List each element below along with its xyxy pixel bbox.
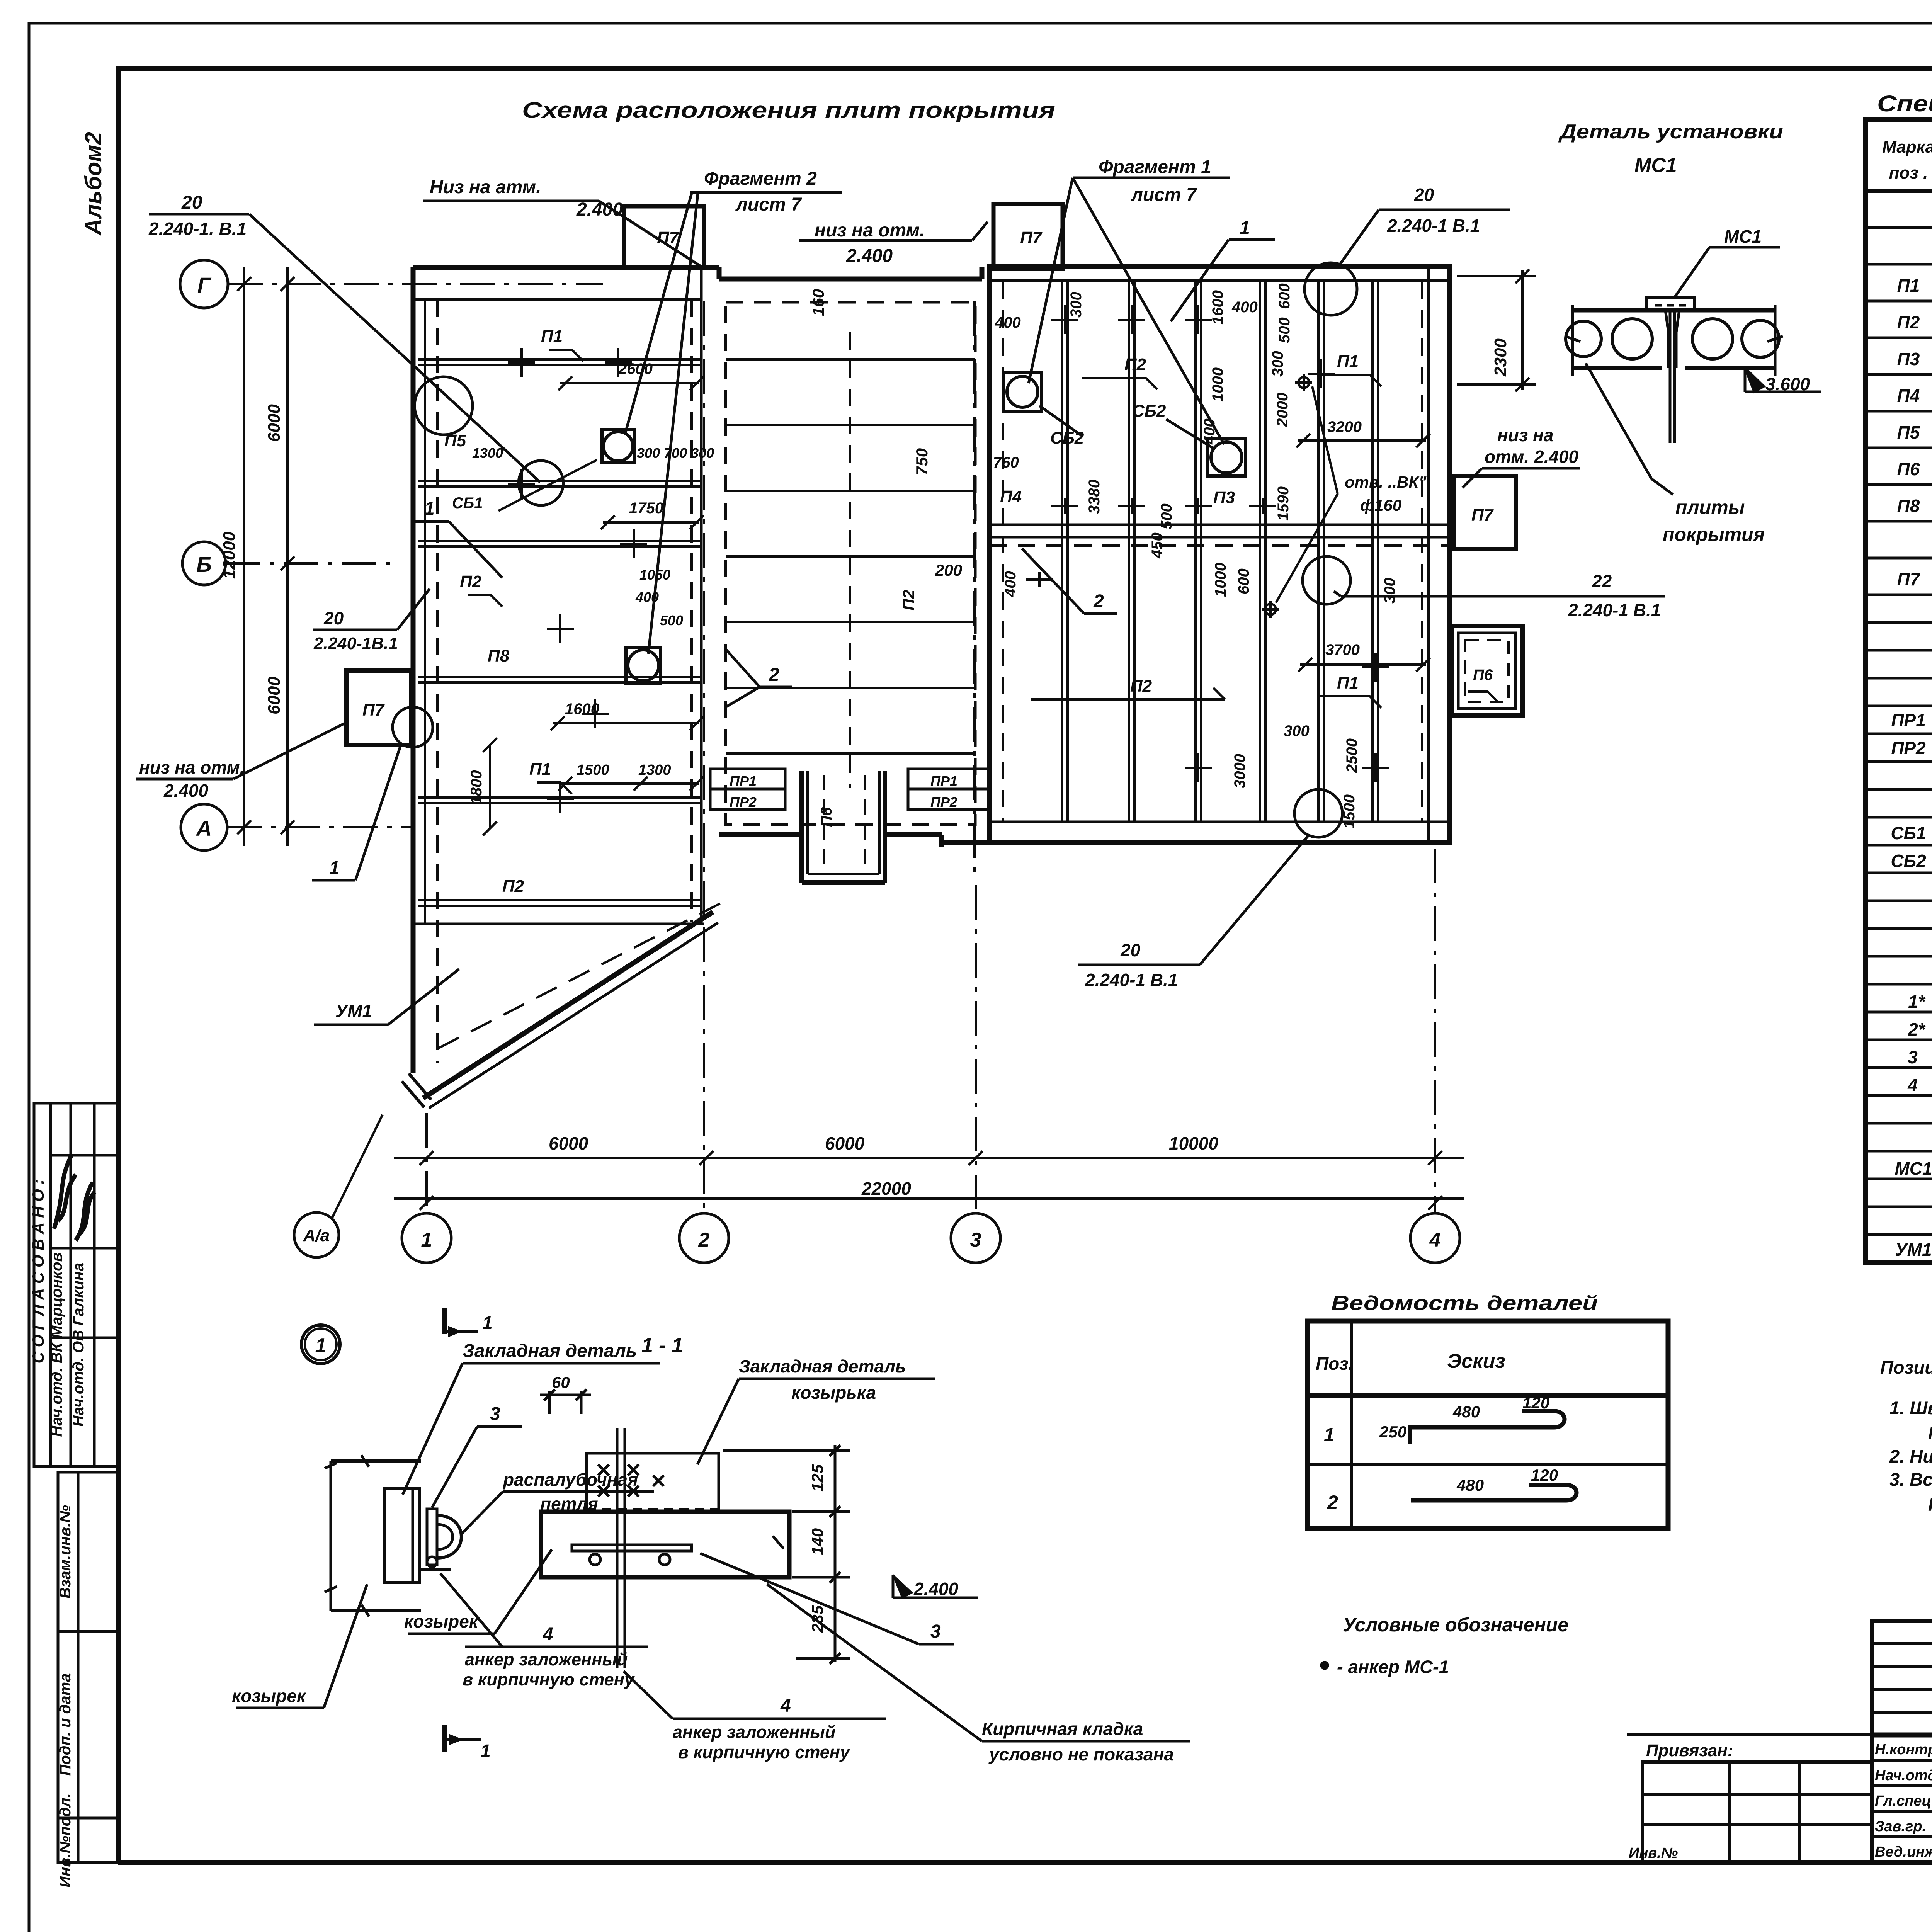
left block plate joints: [418, 359, 701, 906]
svg-text:Условные обозначение: Условные обозначение: [1343, 1614, 1568, 1636]
svg-text:П6: П6: [1897, 459, 1920, 479]
hollow cores: [1566, 321, 1601, 357]
top П7 canopy box: [624, 206, 704, 267]
svg-text:22000: 22000: [861, 1179, 911, 1199]
node circle 1: [301, 1325, 340, 1364]
svg-text:1600: 1600: [1209, 290, 1226, 325]
svg-text:1800: 1800: [468, 770, 485, 805]
axis 2 3 inside plan: [704, 301, 975, 923]
svg-text:1: 1: [315, 1335, 327, 1357]
axis circle А: [181, 804, 413, 850]
svg-text:3: 3: [970, 1229, 981, 1251]
svg-text:300: 300: [1269, 351, 1286, 377]
svg-text:П1: П1: [1897, 276, 1920, 296]
lintel boxes ПР1 ПР2 right: [908, 769, 989, 810]
svg-text:плиты: плиты: [1675, 497, 1745, 518]
УМ1 label: [314, 969, 459, 1025]
wall edge: [330, 1461, 332, 1611]
svg-text:Инв.№: Инв.№: [1629, 1845, 1678, 1861]
svg-text:Эскиз: Эскиз: [1447, 1350, 1505, 1372]
svg-text:3. Все сварные соединения: 3. Все сварные соединения выполнять элек…: [1889, 1469, 1932, 1490]
svg-text:П2: П2: [1124, 355, 1146, 374]
svg-text:МС1: МС1: [1634, 154, 1677, 177]
svg-text:П4: П4: [1897, 386, 1920, 406]
anchor bar in slab: [572, 1545, 692, 1551]
dim 2300 right: [1457, 269, 1536, 391]
СБ1 glass 2: [626, 648, 660, 683]
left wall inner dashed: [424, 299, 426, 923]
СБ2 glass right: [1208, 439, 1245, 476]
section mark top: [442, 1308, 447, 1334]
svg-text:покрытия: покрытия: [1663, 524, 1765, 545]
СБ2 glass left: [1004, 372, 1041, 412]
svg-text:1300: 1300: [638, 762, 671, 778]
slabs top line: [1573, 308, 1775, 313]
svg-text:Фрагмент 1: Фрагмент 1: [1099, 157, 1211, 177]
svg-text:6000: 6000: [265, 404, 284, 442]
svg-text:1300: 1300: [472, 445, 503, 461]
right block outline: [942, 267, 1449, 843]
svg-text:1: 1: [482, 1313, 493, 1333]
level 2.400: [893, 1575, 912, 1598]
svg-text:2000: 2000: [1274, 393, 1291, 427]
svg-text:Низ на атм.: Низ на атм.: [430, 177, 541, 197]
svg-text:ПР1: ПР1: [930, 773, 957, 789]
svg-text:1: 1: [421, 1229, 432, 1251]
slab top/bottom: [331, 1459, 421, 1463]
svg-text:П7: П7: [1020, 228, 1043, 247]
LEFT STAMP: [29, 1103, 118, 1888]
svg-text:2: 2: [698, 1229, 710, 1251]
svg-text:12000: 12000: [220, 531, 239, 579]
svg-text:1: 1: [1240, 218, 1250, 238]
left block bottom / monolith diagonal: [423, 912, 713, 1098]
svg-text:Закладная деталь: Закладная деталь: [463, 1341, 637, 1361]
pos 1 left mid: [415, 498, 502, 578]
svg-text:3: 3: [1908, 1047, 1918, 1067]
svg-text:ПР1: ПР1: [1891, 710, 1925, 730]
svg-text:4: 4: [780, 1696, 791, 1716]
svg-text:П3: П3: [1897, 349, 1920, 369]
svg-text:П2: П2: [1130, 677, 1152, 696]
TITLE BLOCK: [1872, 1621, 1932, 1862]
DETAIL NODE 1 (left bottom): [232, 1308, 660, 1762]
svg-text:400: 400: [1002, 571, 1019, 597]
svg-text:П1: П1: [529, 760, 551, 779]
svg-text:2.240-1 В.1: 2.240-1 В.1: [1387, 216, 1480, 236]
svg-text:П2: П2: [502, 877, 524, 896]
right block vertical joints: [1003, 281, 1422, 822]
svg-text:СБ1: СБ1: [452, 495, 483, 512]
svg-text:400: 400: [1231, 299, 1258, 316]
svg-text:СБ2: СБ2: [1891, 851, 1926, 871]
svg-text:Нач.отд.: Нач.отд.: [1875, 1767, 1932, 1784]
svg-text:2*: 2*: [1908, 1019, 1926, 1039]
svg-text:Кирпичная кладка: Кирпичная кладка: [982, 1719, 1143, 1739]
NOTES: [1880, 1357, 1932, 1515]
section mark bottom: [442, 1725, 447, 1752]
privyazan mini table: [1627, 1735, 1872, 1862]
svg-text:2. Низ плит на отм. 3.600: 2. Низ плит на отм. 3.600.: [1889, 1446, 1932, 1466]
approval box: [34, 1103, 118, 1466]
svg-text:Г: Г: [197, 273, 212, 297]
right dim chain: [834, 1445, 837, 1662]
svg-text:козырька: козырька: [791, 1383, 876, 1403]
svg-text:1. Швы между плитами задел: 1. Швы между плитами заделать цементным …: [1889, 1398, 1932, 1418]
svg-text:1 - 1: 1 - 1: [641, 1334, 683, 1357]
svg-text:СБ2: СБ2: [1050, 429, 1084, 447]
svg-text:П6: П6: [818, 807, 835, 827]
svg-text:2.240-1 В.1: 2.240-1 В.1: [1568, 600, 1661, 620]
svg-text:отв. ..ВК": отв. ..ВК": [1345, 473, 1427, 491]
svg-text:2.240-1 В.1: 2.240-1 В.1: [1085, 970, 1178, 990]
svg-text:ГОСТ 9466-75*.: ГОСТ 9466-75*.: [1928, 1494, 1932, 1515]
svg-text:20: 20: [1414, 185, 1434, 205]
svg-text:22: 22: [1592, 571, 1612, 591]
svg-text:Спецификация к схеме распол: Спецификация к схеме расположения плит п…: [1877, 91, 1932, 116]
svg-text:Фрагмент 2: Фрагмент 2: [704, 168, 817, 189]
fragment 1 callout: [1029, 157, 1230, 444]
right block labels: [1000, 352, 1359, 696]
svg-text:3000: 3000: [1231, 754, 1248, 788]
svg-text:4: 4: [1907, 1075, 1918, 1095]
joint V: [1665, 310, 1679, 368]
DETAIL SECTION 1-1: [404, 1334, 1190, 1764]
top wall left block: [413, 265, 719, 270]
middle block dashed outline: [726, 302, 975, 825]
svg-text:6000: 6000: [825, 1133, 865, 1153]
svg-text:ПР2: ПР2: [1891, 738, 1926, 758]
svg-text:козырек: козырек: [232, 1686, 307, 1706]
svg-text:750: 750: [913, 448, 931, 475]
svg-text:2.240-1. В.1: 2.240-1. В.1: [148, 219, 247, 239]
svg-text:1750: 1750: [629, 500, 663, 517]
slab leader: [1586, 363, 1651, 479]
svg-text:Взам.инв.№: Взам.инв.№: [57, 1505, 74, 1599]
svg-text:Нач.отд. ВК Марцонков: Нач.отд. ВК Марцонков: [48, 1252, 65, 1437]
VEDOMOST TABLE: [1308, 1292, 1668, 1529]
svg-text:3: 3: [930, 1621, 941, 1642]
svg-text:60: 60: [552, 1373, 570, 1391]
svg-text:Альбом2: Альбом2: [80, 132, 106, 236]
svg-text:А: А: [196, 816, 212, 840]
svg-text:УМ1: УМ1: [1895, 1240, 1932, 1260]
lintel boxes ПР1 ПР2 left: [710, 769, 785, 810]
MC1 DETAIL: [1341, 121, 1821, 620]
svg-text:300: 300: [1381, 578, 1398, 604]
svg-text:П2: П2: [460, 572, 482, 591]
20 2.240-1 В.1 bottom right callout: [1078, 835, 1309, 990]
svg-text:1: 1: [329, 858, 340, 878]
svg-text:3700: 3700: [1325, 641, 1360, 658]
svg-text:1*: 1*: [1908, 992, 1926, 1012]
plate marks right block: [1031, 375, 1381, 708]
svg-text:П8: П8: [1897, 496, 1920, 516]
svg-text:6000: 6000: [265, 677, 284, 714]
отв ВК label: [1276, 386, 1427, 603]
pos 1 bottom-left: [312, 744, 401, 880]
svg-text:2: 2: [1327, 1492, 1338, 1513]
svg-text:Нач.отд. ОВ Галкина: Нач.отд. ОВ Галкина: [70, 1263, 87, 1427]
svg-text:1: 1: [480, 1741, 491, 1762]
svg-text:Позиции 1,2- смотри ведомо: Позиции 1,2- смотри ведомость деталей: [1880, 1357, 1932, 1378]
svg-text:2: 2: [1093, 591, 1104, 612]
niz na otm left lower: [136, 722, 348, 801]
middle block joints: [726, 332, 975, 788]
svg-text:300: 300: [1068, 292, 1085, 318]
svg-text:ПР2: ПР2: [730, 794, 757, 810]
svg-text:1000: 1000: [1209, 367, 1226, 402]
anchor small plate: [427, 1509, 437, 1565]
kozyrek slab: [541, 1512, 789, 1577]
svg-text:200: 200: [935, 561, 962, 579]
svg-text:А/а: А/а: [303, 1226, 330, 1245]
svg-text:МС1: МС1: [1724, 226, 1762, 247]
anchor rod: [616, 1428, 619, 1668]
svg-text:поз .: поз .: [1889, 163, 1928, 182]
LEGEND: [1320, 1614, 1568, 1677]
svg-text:6000: 6000: [549, 1133, 588, 1153]
20 / 2.240-1В.1 left mid: [313, 589, 430, 653]
svg-text:2500: 2500: [1344, 738, 1361, 773]
svg-text:условно не показана: условно не показана: [988, 1744, 1174, 1764]
pos 1 top right: [1171, 218, 1275, 321]
right block middle band: [990, 525, 1449, 546]
left block dims: [452, 361, 714, 835]
svg-text:500: 500: [1158, 503, 1175, 529]
svg-text:Вед.инж.: Вед.инж.: [1875, 1844, 1932, 1860]
anchor plate: [1647, 297, 1695, 310]
niz na otm top-left: [423, 177, 701, 267]
svg-text:1500: 1500: [577, 762, 609, 778]
svg-text:П7: П7: [362, 701, 385, 719]
svg-text:1590: 1590: [1275, 486, 1292, 521]
svg-text:низ на отм.: низ на отм.: [139, 757, 245, 777]
niz na otm middle top: [799, 220, 988, 266]
svg-text:Б: Б: [196, 552, 212, 577]
svg-text:П1: П1: [1337, 673, 1359, 692]
svg-text:600: 600: [1235, 568, 1252, 594]
svg-text:Схема расположения плит пок: Схема расположения плит покрытия: [522, 98, 1055, 123]
svg-text:20: 20: [1120, 940, 1141, 960]
monolith dashed diagonal: [438, 903, 722, 1048]
svg-text:ф160: ф160: [1360, 496, 1401, 514]
svg-text:480: 480: [1456, 1476, 1484, 1494]
svg-text:М150 на всю высоту шва.: М150 на всю высоту шва.: [1928, 1423, 1932, 1443]
svg-text:250: 250: [1379, 1423, 1406, 1441]
svg-text:СБ2: СБ2: [1132, 401, 1166, 420]
svg-text:2300: 2300: [1491, 338, 1510, 377]
bottom axis stems: [427, 849, 1435, 1213]
svg-text:в кирпичную стену: в кирпичную стену: [678, 1742, 850, 1762]
20 / 2.240-1.8.1 top-left: [148, 192, 540, 482]
svg-text:20: 20: [181, 192, 202, 213]
22 2.240-1 В.1 leader from МС1 detail: [1334, 591, 1341, 596]
left vertical dimension lines: [220, 267, 294, 846]
bottom dimension line 1: [394, 1133, 1464, 1165]
svg-text:П6: П6: [1473, 667, 1493, 684]
fragment 2 callout: [625, 168, 842, 654]
building outline: left+middle blocks: [402, 204, 1063, 1107]
svg-text:120: 120: [1531, 1466, 1558, 1484]
svg-text:козырек: козырек: [404, 1611, 479, 1631]
pos 2 right mid: [1022, 549, 1117, 614]
svg-text:500: 500: [1276, 317, 1293, 343]
svg-text:2.240-1В.1: 2.240-1В.1: [313, 634, 398, 653]
left block right edge: [700, 267, 703, 924]
svg-text:П7: П7: [1471, 506, 1494, 525]
svg-text:П1: П1: [541, 327, 563, 346]
svg-text:20: 20: [323, 608, 344, 628]
svg-text:П2: П2: [1897, 312, 1920, 332]
SPEC TABLE HEADER TEXT: [1882, 138, 1932, 182]
svg-text:1000: 1000: [1212, 563, 1229, 597]
СБ1 glass 1: [602, 430, 635, 463]
node circles left: [415, 377, 473, 435]
svg-text:СБ1: СБ1: [1891, 823, 1926, 843]
pos 2 middle callout: [726, 649, 792, 707]
svg-text:- анкер МС-1: - анкер МС-1: [1337, 1656, 1449, 1677]
svg-text:2.400: 2.400: [913, 1579, 959, 1599]
svg-text:лист 7: лист 7: [735, 194, 802, 215]
svg-text:отм. 2.400: отм. 2.400: [1485, 447, 1579, 467]
middle block labels: [809, 289, 962, 611]
svg-text:235: 235: [808, 1605, 827, 1633]
svg-text:Марка: Марка: [1882, 138, 1932, 156]
svg-text:760: 760: [993, 454, 1019, 471]
svg-text:анкер заложенный: анкер заложенный: [673, 1722, 835, 1742]
svg-text:Закладная деталь: Закладная деталь: [739, 1356, 906, 1376]
svg-text:400: 400: [995, 314, 1021, 331]
corridor protrusion: [802, 771, 885, 883]
node circles right: [1304, 263, 1357, 315]
svg-text:ПР2: ПР2: [930, 794, 957, 810]
svg-text:Ведомость деталей: Ведомость деталей: [1331, 1292, 1598, 1315]
svg-text:Поз.: Поз.: [1316, 1354, 1353, 1374]
svg-text:П2: П2: [900, 590, 918, 611]
svg-text:анкер заложенный: анкер заложенный: [465, 1650, 628, 1669]
svg-text:Н.контр.: Н.контр.: [1875, 1742, 1932, 1758]
left block top inner line: [413, 298, 701, 301]
СБ2 leaders: [1039, 406, 1082, 436]
svg-text:П3: П3: [1213, 488, 1235, 507]
svg-text:ПР1: ПР1: [730, 773, 757, 789]
svg-text:МС1: МС1: [1895, 1158, 1932, 1179]
svg-text:300: 300: [1284, 723, 1310, 740]
svg-text:480: 480: [1452, 1403, 1480, 1421]
svg-text:1: 1: [1324, 1424, 1335, 1446]
hole symbols: [1262, 374, 1312, 618]
svg-text:УМ1: УМ1: [335, 1001, 372, 1021]
plate label marks: [468, 350, 583, 794]
step to middle block: [717, 267, 722, 279]
svg-text:Деталь установки: Деталь установки: [1558, 121, 1783, 143]
anchor rod: [1669, 310, 1672, 443]
svg-text:4: 4: [543, 1624, 553, 1645]
niz na otm right: [1463, 425, 1580, 488]
svg-text:300 700 300: 300 700 300: [637, 445, 714, 461]
svg-text:П5: П5: [1897, 422, 1920, 442]
svg-text:160: 160: [809, 289, 827, 316]
svg-text:Гл.спец.: Гл.спец.: [1875, 1793, 1932, 1809]
svg-text:500: 500: [660, 612, 683, 628]
svg-text:3200: 3200: [1327, 418, 1362, 435]
svg-text:450: 450: [1149, 532, 1166, 559]
right П6 box: [1451, 626, 1522, 716]
SPEC TABLE GRID: [1866, 120, 1932, 1262]
right block dims: [993, 283, 1430, 829]
embedded plate: [384, 1489, 419, 1582]
middle П7 canopy box: [993, 204, 1063, 269]
left wall: [411, 267, 416, 1073]
right П7 box: [1454, 476, 1516, 549]
svg-text:1: 1: [424, 498, 435, 519]
embedded block: [587, 1453, 719, 1512]
title block texts: [1875, 1638, 1932, 1862]
svg-text:3: 3: [490, 1404, 500, 1424]
svg-text:2: 2: [769, 665, 779, 685]
axis circle Г: [180, 260, 603, 308]
svg-text:П4: П4: [1000, 487, 1022, 506]
SPEC TABLE ROW LINES upper (plates): [1866, 228, 1932, 1235]
svg-text:П7: П7: [1897, 569, 1921, 589]
svg-text:10000: 10000: [1169, 1133, 1218, 1153]
level mark 3.600: [1745, 368, 1764, 392]
left П7 box: [346, 671, 411, 745]
svg-text:П1: П1: [1337, 352, 1359, 371]
svg-text:Зав.гр.: Зав.гр.: [1875, 1818, 1926, 1835]
20 2.240-1 В.1 top right callout: [1338, 185, 1510, 267]
svg-text:125: 125: [808, 1464, 827, 1492]
lower stamp boxes: [58, 1472, 118, 1631]
svg-text:низ на: низ на: [1497, 425, 1554, 445]
right block inner lines: [990, 267, 1449, 843]
svg-text:4: 4: [1429, 1229, 1441, 1251]
svg-text:в кирпичную стену: в кирпичную стену: [463, 1670, 635, 1689]
svg-text:Подп. и дата: Подп. и дата: [57, 1673, 74, 1776]
anchor crosses in plan: [508, 305, 1389, 813]
svg-text:лист 7: лист 7: [1131, 185, 1197, 205]
bottom dimension line 2: [394, 1179, 1464, 1210]
SPEC TABLE CONTENT: [1891, 238, 1932, 1260]
svg-text:С О Г Л А С О В А Н О :: С О Г Л А С О В А Н О :: [29, 1179, 47, 1364]
edges with break: [1571, 305, 1574, 376]
axis circle Б: [182, 542, 390, 585]
svg-text:2.400: 2.400: [163, 781, 209, 801]
svg-text:600: 600: [1276, 283, 1293, 309]
svg-text:140: 140: [808, 1528, 827, 1555]
svg-text:2.400: 2.400: [846, 246, 893, 266]
bottom axis circles: [402, 1213, 1460, 1263]
svg-text:низ на отм.: низ на отм.: [815, 220, 925, 241]
middle block bottom edge: [719, 835, 942, 847]
axis circle А/а: [294, 1115, 383, 1257]
lifting loop: [437, 1515, 461, 1558]
svg-text:3380: 3380: [1086, 480, 1103, 514]
svg-text:Привязан:: Привязан:: [1646, 1741, 1733, 1760]
svg-text:П8: П8: [488, 646, 510, 665]
signatures: [54, 1155, 76, 1229]
left block labels: [362, 228, 1043, 896]
svg-text:Инв.№подл.: Инв.№подл.: [57, 1793, 74, 1888]
